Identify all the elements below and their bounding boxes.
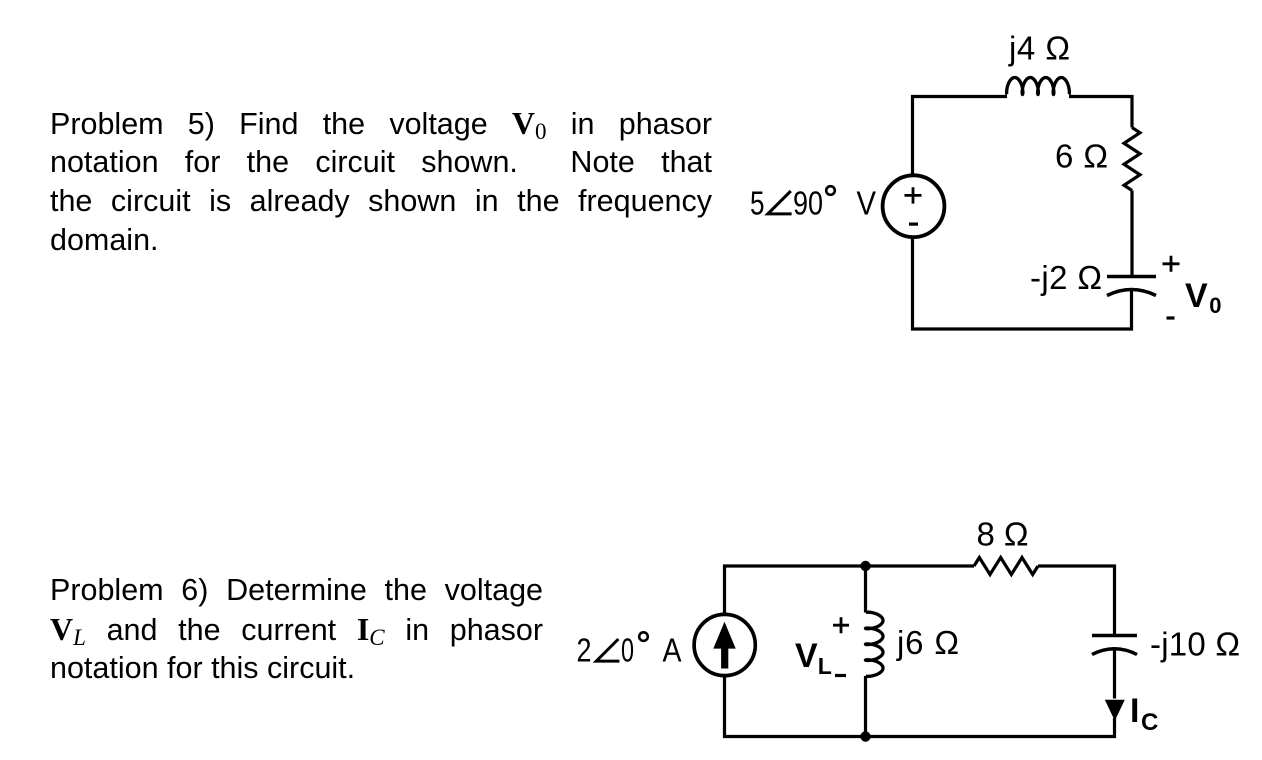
capacitor -j10 (C2) top plate <box>1092 634 1137 638</box>
current source arrow stem <box>721 646 728 669</box>
problem 6 statement <box>50 571 543 688</box>
wire: circuit1 top-right horizontal <box>1069 95 1134 98</box>
inductor j6 (L2) <box>866 612 884 676</box>
svg-text:A: A <box>663 633 683 670</box>
wire: circuit2 middle branch lower <box>864 676 867 737</box>
current source I1 circle <box>694 614 755 675</box>
svg-text:0: 0 <box>621 633 634 670</box>
problem 5 statement <box>50 104 712 260</box>
minus sign below capacitor C1 <box>1167 316 1175 319</box>
capacitor -j2 (C1) bottom plate arc <box>1107 290 1156 296</box>
wire: circuit1 left vertical lower <box>911 238 914 331</box>
current IC arrow head <box>1105 700 1125 721</box>
capacitor -j10 (C2) bottom plate arc <box>1092 649 1137 655</box>
voltage source plus <box>905 187 922 203</box>
voltage source V1 circle <box>883 175 945 237</box>
wire: circuit2 right vertical upper <box>1113 565 1116 636</box>
wire: circuit1 bottom horizontal <box>911 327 1133 330</box>
svg-text:6 Ω: 6 Ω <box>1055 138 1108 175</box>
wire: circuit2 right vertical lower <box>1113 650 1116 699</box>
node dot top <box>860 561 870 571</box>
plus sign for VL <box>833 617 849 633</box>
svg-text:IC: IC <box>1130 692 1158 736</box>
wire: circuit2 top horizontal left <box>723 564 974 567</box>
resistor 8 ohm (R2) <box>974 558 1038 575</box>
svg-text:-j2 Ω: -j2 Ω <box>1030 259 1102 296</box>
label angle symbol for source 1 <box>768 191 792 214</box>
wire: circuit2 left vertical lower <box>723 677 726 739</box>
svg-text:j6 Ω: j6 Ω <box>896 624 959 661</box>
wire: circuit1 right vertical middle <box>1130 191 1133 277</box>
svg-text:j4 Ω: j4 Ω <box>1008 30 1070 67</box>
wire: circuit2 left vertical upper <box>723 565 726 614</box>
wire: circuit2 below IC arrow <box>1113 718 1116 738</box>
wire: circuit2 middle branch upper <box>864 566 867 613</box>
capacitor -j2 (C1) top plate <box>1107 275 1156 279</box>
wire: circuit2 bottom horizontal <box>723 735 1116 738</box>
svg-text:V0: V0 <box>1185 277 1221 318</box>
svg-text:90: 90 <box>793 186 823 223</box>
wire: circuit1 right vertical upper <box>1130 95 1133 128</box>
wire: circuit1 top-left horizontal <box>911 95 1007 98</box>
wire: circuit1 right vertical lower <box>1130 291 1133 331</box>
svg-text:8 Ω: 8 Ω <box>977 516 1029 553</box>
label angle symbol for source 2 <box>596 639 619 661</box>
plus sign at capacitor C1 <box>1163 256 1180 272</box>
wire: circuit2 top horizontal right <box>1038 564 1116 567</box>
label degree circle source 1 <box>826 186 835 195</box>
minus sign for VL <box>835 674 846 677</box>
svg-text:VL: VL <box>795 637 832 679</box>
svg-text:2: 2 <box>577 633 592 670</box>
voltage source minus <box>909 223 918 226</box>
node dot bottom <box>860 731 870 741</box>
current source arrow head <box>713 622 735 649</box>
svg-text:-j10 Ω: -j10 Ω <box>1150 626 1240 663</box>
wire: circuit1 left vertical upper <box>911 95 914 176</box>
inductor j4 (L1) <box>1007 78 1070 95</box>
resistor 6 ohm (R1) <box>1124 128 1140 191</box>
svg-text:V: V <box>857 186 877 223</box>
label degree circle source 2 <box>639 632 648 641</box>
svg-text:5: 5 <box>750 186 765 223</box>
